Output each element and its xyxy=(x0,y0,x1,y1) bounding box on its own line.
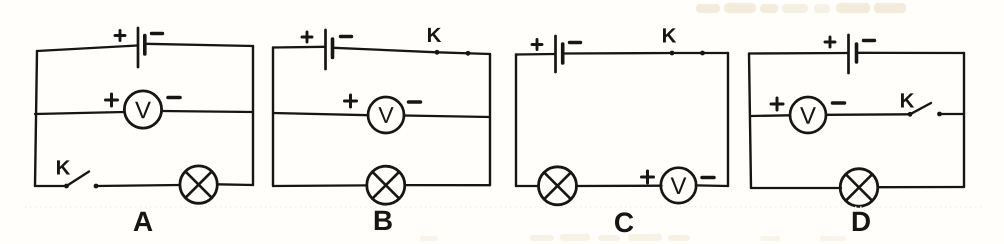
battery A plus label xyxy=(115,31,125,41)
wire A left edge xyxy=(35,51,37,186)
lamp A xyxy=(180,166,217,203)
voltmeter D xyxy=(790,97,826,133)
voltmeter A V label xyxy=(135,102,151,119)
voltmeter C plus label xyxy=(642,171,654,183)
battery D minus label xyxy=(864,39,875,42)
wire B top-mid segment xyxy=(334,48,438,53)
voltmeter B minus label xyxy=(409,100,421,104)
voltmeter B xyxy=(368,97,404,133)
label A xyxy=(134,212,153,231)
wire D right edge xyxy=(963,53,965,187)
battery D plus label xyxy=(825,37,835,47)
battery B plus label xyxy=(302,32,312,42)
wire A top-right segment xyxy=(146,44,254,46)
wire C left edge xyxy=(515,55,517,187)
wire D middle-right segment xyxy=(940,113,965,115)
wire C top-left segment xyxy=(516,53,555,56)
wire D bottom-right segment xyxy=(878,186,965,188)
battery C minus label xyxy=(570,41,581,44)
wire D middle-mid segment xyxy=(826,113,910,116)
label D xyxy=(853,212,870,231)
battery B xyxy=(326,30,333,69)
wire A bottom-left segment xyxy=(35,185,66,187)
wire D bottom-left segment xyxy=(751,187,841,189)
switch C K label xyxy=(663,28,676,42)
voltmeter B plus label xyxy=(345,95,357,107)
wire D top-left segment xyxy=(749,52,848,55)
switch K D (open) xyxy=(908,103,942,117)
battery D xyxy=(849,35,857,73)
wire C bottom-right segment xyxy=(696,184,728,187)
voltmeter A plus label xyxy=(106,94,118,106)
battery C xyxy=(556,36,563,72)
lamp C xyxy=(539,167,577,205)
wire C bottom-left segment xyxy=(516,185,539,187)
wire B bottom-right segment xyxy=(405,184,490,186)
wire B middle-left segment xyxy=(273,113,368,115)
faint print-through marks bottom xyxy=(420,234,846,241)
wire C top-right segment xyxy=(672,52,728,54)
wire B top-left segment xyxy=(273,46,325,49)
label B xyxy=(375,211,392,230)
wire A middle-left segment xyxy=(35,112,124,114)
wire A bottom-right segment xyxy=(217,183,253,186)
switch A K label xyxy=(57,160,70,174)
voltmeter A xyxy=(124,91,161,128)
lamp B xyxy=(367,166,405,204)
switch K C (closed) xyxy=(670,51,705,56)
battery A xyxy=(138,28,145,67)
wire D left edge xyxy=(749,54,751,189)
faint print-through marks top xyxy=(696,3,906,13)
wire B top-right segment xyxy=(437,52,490,54)
voltmeter D V label xyxy=(800,107,816,124)
voltmeter A minus label xyxy=(168,96,180,100)
label C xyxy=(615,212,633,232)
battery A minus label xyxy=(152,32,163,35)
wire D middle-left segment xyxy=(751,114,790,117)
wire B middle-right segment xyxy=(404,116,490,118)
wire B bottom-left segment xyxy=(273,184,367,187)
voltmeter D minus label xyxy=(833,101,845,105)
wire B left edge xyxy=(272,48,274,187)
wire B right edge xyxy=(489,54,491,185)
wire A middle-right segment xyxy=(162,111,253,112)
wire D top-right segment xyxy=(857,52,964,55)
voltmeter C minus label xyxy=(702,176,714,180)
voltmeter C V label xyxy=(671,178,687,195)
switch K A (open) xyxy=(64,172,98,189)
voltmeter C xyxy=(661,168,696,203)
switch D K label xyxy=(901,93,914,107)
wire A right edge xyxy=(252,46,254,185)
wire C bottom-mid segment xyxy=(576,185,662,188)
lamp D xyxy=(840,169,878,207)
wire C right edge xyxy=(727,53,729,186)
wire A bottom-middle segment xyxy=(96,185,180,186)
wire A top-left segment xyxy=(37,46,137,52)
battery C plus label xyxy=(532,40,542,50)
faint ruled dotted line xyxy=(25,206,985,208)
wire C top-mid segment xyxy=(564,52,673,55)
battery B minus label xyxy=(341,35,352,38)
voltmeter B V label xyxy=(378,107,393,123)
voltmeter D plus label xyxy=(771,98,783,110)
switch K B (closed) xyxy=(435,50,471,56)
switch B K label xyxy=(428,28,441,42)
